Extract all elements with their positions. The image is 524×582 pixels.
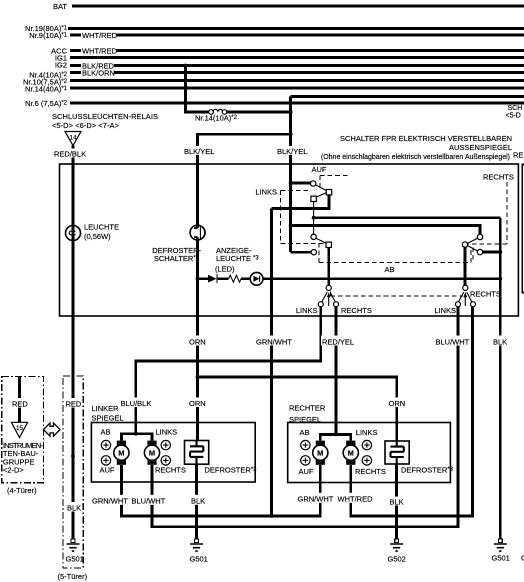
svg-text:BLU/WHT: BLU/WHT <box>436 337 470 346</box>
node RECHTS label top right <box>483 172 514 181</box>
svg-text:AUSSENSPIEGEL: AUSSENSPIEGEL <box>449 143 512 152</box>
node LINKS label right mirror <box>356 428 378 437</box>
direction symbol plus AUF right <box>301 456 310 465</box>
wire S1 square1 down to GRN/WHT <box>272 195 330 209</box>
wire row 225 to right switch <box>291 225 480 234</box>
node IG1 <box>55 53 67 62</box>
node Nr.19(80A)*1 <box>25 24 68 33</box>
wire fuse feed <box>186 66 209 113</box>
svg-text:RECHTS: RECHTS <box>341 306 372 315</box>
junction right mirror feed split <box>334 433 338 437</box>
svg-text:RECHTS: RECHTS <box>155 465 186 474</box>
switch S5 selector right pivot <box>463 285 468 290</box>
svg-text:LEUCHTE: LEUCHTE <box>84 222 119 231</box>
wire ORN branch to right defroster <box>198 377 397 441</box>
node BLK label right <box>492 336 512 347</box>
switch S2 blade <box>316 238 332 247</box>
node SCH label right component <box>506 105 523 120</box>
svg-text:G501: G501 <box>492 553 510 562</box>
wire S4 lower contact to BLK <box>483 251 501 254</box>
motor M2 left mirror left/right <box>144 441 159 465</box>
svg-text:GRN/WHT: GRN/WHT <box>298 494 334 503</box>
node RE label right component <box>513 150 523 159</box>
node RECHTS label left mirror <box>155 465 186 474</box>
wire IG1 bus <box>70 56 524 59</box>
svg-text:BLK: BLK <box>493 337 507 346</box>
svg-text:<2-D>: <2-D> <box>3 466 24 475</box>
node AUF label right mirror <box>299 467 314 476</box>
svg-text:(LED): (LED) <box>215 264 235 273</box>
wire Nr.4 bus BLK/ORN <box>70 69 524 78</box>
wire diode to resistor <box>217 277 229 280</box>
svg-text:G502: G502 <box>388 554 406 563</box>
node GRN/WHT label <box>255 336 294 347</box>
wire LED row left <box>198 277 209 280</box>
title SCHALTER FPR ELEKTRISCH VERSTELLBAREN AUSSENSPIEGEL <box>321 134 512 161</box>
wire RED/BLK lamp line <box>72 146 75 540</box>
right component box edge <box>522 165 524 293</box>
left mirror assembly LINKER SPIEGEL <box>91 404 255 482</box>
wire S4 pivot down to S5 <box>464 247 467 285</box>
direction symbol plus AUF left <box>101 456 110 465</box>
svg-text:AUF: AUF <box>100 465 115 474</box>
svg-text:LINKS: LINKS <box>356 428 378 437</box>
svg-text:(4-Türer): (4-Türer) <box>7 486 37 495</box>
svg-text:M: M <box>149 449 155 458</box>
node BLK/YEL left label <box>183 146 215 156</box>
junction AB to BLK vertical <box>498 277 502 281</box>
switch S4 blades <box>468 238 478 251</box>
svg-text:<5-D: <5-D <box>506 113 521 120</box>
svg-text:SCHLUSSLEUCHTEN-RELAIS: SCHLUSSLEUCHTEN-RELAIS <box>52 112 158 121</box>
direction symbol plus LINKS left <box>161 440 170 449</box>
wire S3 LINKS contact to left mirror BLU/BLK <box>136 307 321 434</box>
switch S1 blade <box>311 185 332 202</box>
node Nr.6(7,5A)*2 <box>25 99 68 108</box>
variant arrow symbol <box>44 423 61 436</box>
junction BLK/YEL branch <box>289 132 293 136</box>
motor M3 right mirror up/down <box>313 441 328 465</box>
svg-text:ORN: ORN <box>189 399 206 408</box>
node GRN/WHT label below right <box>297 493 338 504</box>
svg-text:DEFROSTER*3: DEFROSTER*3 <box>401 465 454 474</box>
svg-text:BLK: BLK <box>191 496 205 505</box>
linkage S4 stub <box>472 248 474 263</box>
node BAT <box>53 2 67 11</box>
svg-text:M: M <box>317 449 323 458</box>
node IG2 <box>55 61 67 70</box>
svg-text:RED/BLK: RED/BLK <box>54 149 86 158</box>
svg-text:BLU/BLK: BLU/BLK <box>121 399 152 408</box>
svg-text:BLU/WHT: BLU/WHT <box>132 496 166 505</box>
junction ORN branch <box>196 375 200 379</box>
svg-text:M: M <box>348 449 354 458</box>
svg-text:14: 14 <box>69 135 77 142</box>
node BLU/BLK label <box>120 398 155 408</box>
motor M4 right mirror left/right <box>343 441 358 465</box>
ground G501 right <box>492 539 510 562</box>
connector triangle 15 <box>11 422 27 437</box>
variant box 4-Tuerer <box>2 376 44 495</box>
svg-text:BLK: BLK <box>67 503 81 512</box>
node Nr.10(7,5A)*2 <box>23 77 68 86</box>
wire resistor to LED <box>241 277 250 280</box>
wire Nr.9 bus WHT/RED <box>70 31 524 40</box>
node INSTRUMENTEN-BAUGRUPPE label <box>3 441 44 475</box>
switch DEFROSTER-SCHALTER*3 <box>152 225 205 263</box>
junction on BLK vertical <box>498 250 502 254</box>
wire branch bus y96 <box>291 95 524 98</box>
node RECHTS label S3 <box>341 306 372 315</box>
wire BAT bus <box>72 5 524 8</box>
diode D1 <box>208 274 217 283</box>
svg-text:SCHALTER FPR ELEKTRISCH VERSTE: SCHALTER FPR ELEKTRISCH VERSTELLBAREN <box>340 134 512 143</box>
svg-text:RECHTS: RECHTS <box>470 289 501 298</box>
svg-text:Nr.6 (7,5A)*2: Nr.6 (7,5A)*2 <box>25 99 68 108</box>
direction symbol plus AB right <box>301 440 310 449</box>
svg-text:DEFROSTER*3: DEFROSTER*3 <box>205 465 258 474</box>
ground G502 <box>388 539 406 563</box>
direction symbol plus RECHTS right <box>362 456 371 465</box>
svg-text:IG2: IG2 <box>55 61 67 70</box>
switch S1 contact circle <box>311 181 316 186</box>
LED lamp circle <box>250 272 263 285</box>
svg-text:LINKS: LINKS <box>434 306 456 315</box>
wire BLK/YEL main vertical <box>289 97 292 253</box>
wire left defroster to ground <box>195 464 198 539</box>
svg-text:WHT/RED: WHT/RED <box>82 47 118 56</box>
switch S4 right contact upper <box>477 234 482 239</box>
svg-text:LINKS: LINKS <box>255 187 277 196</box>
lamp LEUCHTE (0,56W) <box>66 222 120 241</box>
wire ACC bus WHT/RED <box>70 47 524 56</box>
wire GRN/WHT vertical <box>270 209 273 517</box>
direction symbol plus RECHTS left <box>161 456 170 465</box>
svg-text:LINKS: LINKS <box>296 306 318 315</box>
switch S4 pivot <box>462 242 467 247</box>
svg-text:AB: AB <box>385 265 395 274</box>
switch S3 blades and arrow <box>322 292 335 306</box>
wire right mirror motor feeds <box>320 434 351 440</box>
svg-text:<5-D> <6-D> <7-A>: <5-D> <6-D> <7-A> <box>52 121 120 130</box>
junction BLK/YEL to row 225 <box>289 224 293 228</box>
node AUF label <box>312 165 327 174</box>
wire AB line <box>263 265 500 279</box>
node GRN/WHT label below left <box>91 495 132 506</box>
wire fuse output <box>227 111 291 114</box>
svg-text:SPIEGEL: SPIEGEL <box>92 413 124 422</box>
switch S4 contact lower <box>477 249 482 254</box>
wire Nr.19 bus <box>68 27 524 30</box>
node Nr.9(10A)*1 <box>29 31 67 40</box>
svg-text:BLK/YEL: BLK/YEL <box>184 147 214 156</box>
node LINKS label left mirror <box>156 427 178 436</box>
svg-text:RE: RE <box>513 150 523 159</box>
svg-text:(Ohne einschlagbaren elektrisc: (Ohne einschlagbaren elektrisch verstell… <box>321 154 510 161</box>
motor M1 left mirror up/down <box>114 441 129 465</box>
svg-text:GRN/WHT: GRN/WHT <box>256 337 292 346</box>
switch S5 contact RECHTS <box>471 302 476 307</box>
svg-text:GRN/WHT: GRN/WHT <box>92 496 128 505</box>
junction on IG2 bus <box>184 64 188 68</box>
svg-text:G501: G501 <box>66 554 84 563</box>
junction defroster line to LED row <box>196 277 200 281</box>
wire left motor2 to BLU/WHT row <box>152 307 458 527</box>
wire RED 4-Tuerer <box>18 376 21 422</box>
svg-text:AB: AB <box>101 427 111 436</box>
svg-text:RED/YEL: RED/YEL <box>322 337 354 346</box>
switch S5 contact LINKS <box>456 302 461 307</box>
svg-text:SCH: SCH <box>508 105 523 112</box>
svg-text:WHT/RED: WHT/RED <box>82 31 118 40</box>
svg-text:(5-Türer): (5-Türer) <box>58 572 88 581</box>
junction BLK/YEL to switch contact 1 <box>289 181 293 185</box>
node BLK label below right <box>389 497 406 507</box>
node WHT/RED label below right <box>337 493 376 504</box>
direction symbol plus LINKS right <box>362 440 371 449</box>
svg-text:G501: G501 <box>190 554 208 563</box>
linkage S3 dashed row <box>331 292 466 296</box>
node BLU/WHT label below left <box>131 495 169 506</box>
junction splice on RED line <box>71 454 75 458</box>
junction S1 to row 218 <box>312 216 316 220</box>
switch S2 contact circles <box>311 234 317 255</box>
wire S1 square2 down <box>313 202 315 235</box>
linkage RECHTS dashed <box>469 182 507 244</box>
node BLK label strip <box>66 502 85 512</box>
wire Nr.6 bus <box>70 102 524 105</box>
svg-text:RED: RED <box>66 399 82 408</box>
node G label clipped right <box>521 553 524 562</box>
wire S3 RECHTS contact to right mirror RED/YEL <box>335 307 338 435</box>
svg-text:LINKS: LINKS <box>156 427 178 436</box>
resistor R1 <box>229 275 241 282</box>
node AB label right <box>300 428 310 437</box>
node RECHTS label right mirror <box>355 467 386 476</box>
wire Nr.10 bus <box>70 79 524 82</box>
node BLU/WHT label right <box>435 336 471 347</box>
node LINKS label upper <box>255 187 277 196</box>
node RED/YEL label <box>321 336 357 347</box>
svg-text:BLK/ORN: BLK/ORN <box>82 69 115 78</box>
node AUF label left mirror <box>100 465 115 474</box>
defroster element right <box>385 441 454 474</box>
linkage LINKS dashed <box>281 191 326 244</box>
node BLK/YEL right label <box>276 146 308 156</box>
svg-text:LINKER: LINKER <box>92 404 120 413</box>
svg-text:BAT: BAT <box>53 2 67 11</box>
ground G501 strip <box>66 539 84 563</box>
wire IG2 bus BLK/RED <box>70 62 524 71</box>
svg-text:BLK/YEL: BLK/YEL <box>277 147 307 156</box>
switch S3 contact LINKS <box>318 302 323 307</box>
junction left mirror feed split <box>134 432 138 436</box>
wire to contact 1 <box>291 182 311 185</box>
switch S3 contact RECHTS <box>334 302 339 307</box>
svg-text:RECHTS: RECHTS <box>355 467 386 476</box>
node LINKS label S5 <box>434 306 456 315</box>
node RECHTS label S5 <box>470 289 501 298</box>
wire BLK vertical right <box>499 218 502 539</box>
switch S5 blades and arrow <box>458 292 471 306</box>
svg-text:AUF: AUF <box>299 467 314 476</box>
svg-text:WHT/RED: WHT/RED <box>338 494 374 503</box>
node ORN label left mirror <box>188 398 208 408</box>
node RED label strip <box>65 398 84 408</box>
wire S2 to selector pivot <box>327 248 330 286</box>
node Nr.14(40A)*1 <box>25 84 68 93</box>
relay SCHLUSSLEUCHTEN-RELAIS label <box>52 112 158 130</box>
wire left mirror motor feeds <box>121 434 152 441</box>
svg-text:RED: RED <box>12 399 28 408</box>
svg-text:RECHTS: RECHTS <box>483 172 514 181</box>
svg-text:ORN: ORN <box>389 399 406 408</box>
wire right defroster to ground <box>395 464 398 539</box>
svg-text:AB: AB <box>300 428 310 437</box>
junction fuse output to BLK/YEL <box>289 110 293 114</box>
svg-text:SCHALTER*3: SCHALTER*3 <box>154 254 200 263</box>
node LINKS label S3 <box>296 306 318 315</box>
svg-text:ORN: ORN <box>189 337 206 346</box>
switch assembly box <box>60 164 519 316</box>
svg-text:M: M <box>118 449 124 458</box>
linkage AUF dashed <box>320 176 348 190</box>
fuse Nr.14(10A)*2 <box>195 109 238 122</box>
node ORN label left <box>188 336 208 347</box>
wire BLK/YEL corner to contact <box>291 251 311 254</box>
defroster element left <box>185 441 258 475</box>
wire right motor2 to WHT/RED row <box>351 307 473 516</box>
node RED label 4-Tuerer <box>11 398 30 408</box>
node BLK label below left <box>190 495 208 506</box>
right mirror assembly RECHTER SPIEGEL <box>288 403 451 482</box>
junction GRN/WHT row <box>270 514 274 518</box>
svg-text:Nr.14(10A)*2: Nr.14(10A)*2 <box>195 113 238 122</box>
variant strip 5-Tuerer <box>58 376 88 581</box>
wire Nr.14 bus <box>70 87 524 90</box>
node Nr.4(10A)*2 <box>29 70 67 79</box>
linkage S2 dashed riser and row <box>319 243 471 262</box>
svg-text:Nr.14(40A)*1: Nr.14(40A)*1 <box>25 84 68 93</box>
svg-text:(0,56W): (0,56W) <box>84 232 111 241</box>
wire row 218 to right switch <box>314 216 501 219</box>
ground G501 mid <box>190 539 208 563</box>
wire BLK/YEL branch to defroster switch <box>198 134 291 441</box>
direction symbol plus AB left <box>101 440 110 449</box>
wire left motor1 to GRN/WHT row <box>121 465 320 516</box>
node ORN label right mirror <box>388 398 408 408</box>
svg-text:BLK: BLK <box>390 497 404 506</box>
node AB label left <box>101 427 111 436</box>
node RED/BLK label <box>53 149 86 159</box>
node ACC <box>51 46 67 55</box>
svg-text:RECHTER: RECHTER <box>289 403 326 412</box>
connector triangle 14 <box>65 132 81 146</box>
svg-text:AUF: AUF <box>312 165 327 174</box>
switch S3 selector left pivot <box>326 285 331 290</box>
svg-text:LEUCHTE *3: LEUCHTE *3 <box>216 254 259 263</box>
svg-text:15: 15 <box>16 425 24 432</box>
LED indicator ANZEIGE-LEUCHTE*3 labels <box>215 246 259 273</box>
